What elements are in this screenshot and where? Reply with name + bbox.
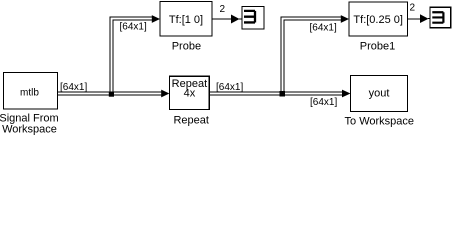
svg-text:4x: 4x bbox=[184, 88, 196, 100]
block Probe (Tf:[1 0]) bbox=[160, 2, 212, 37]
node junction on wire A bbox=[109, 92, 114, 97]
block Repeat bbox=[169, 76, 209, 109]
svg-text:Probe1: Probe1 bbox=[360, 41, 395, 53]
svg-text:[64x1]: [64x1] bbox=[310, 23, 337, 34]
svg-text:Probe: Probe bbox=[172, 41, 201, 53]
block Terminator2 bbox=[430, 7, 451, 28]
svg-text:[64x1]: [64x1] bbox=[310, 97, 337, 108]
wire Repeat to yout (frame double line) bbox=[209, 90, 350, 98]
wire mtlb to Repeat (frame double line) bbox=[58, 90, 170, 98]
block yout (To Workspace) bbox=[351, 76, 408, 112]
svg-text:mtlb: mtlb bbox=[20, 88, 39, 99]
svg-text:[64x1]: [64x1] bbox=[216, 82, 243, 93]
svg-text:Tf:[1 0]: Tf:[1 0] bbox=[169, 14, 203, 26]
wire Probe to Terminator1 bbox=[212, 15, 242, 24]
label Signal From Workspace bbox=[0, 112, 59, 135]
block Terminator1 bbox=[242, 7, 264, 30]
wire branch up to Probe bbox=[110, 15, 160, 93]
svg-text:2: 2 bbox=[220, 4, 226, 15]
svg-text:Tf:[0.25 0]: Tf:[0.25 0] bbox=[353, 14, 403, 26]
svg-text:yout: yout bbox=[369, 88, 390, 100]
svg-text:Repeat: Repeat bbox=[173, 115, 208, 127]
svg-text:Workspace: Workspace bbox=[2, 123, 57, 135]
node junction on wire B bbox=[280, 91, 286, 97]
wire branch up to Probe1 bbox=[281, 15, 349, 93]
wire Probe1 to Terminator2 bbox=[408, 14, 431, 23]
block Probe1 (Tf:[0.25 0]) bbox=[349, 2, 408, 36]
svg-text:[64x1]: [64x1] bbox=[60, 82, 87, 93]
svg-text:To Workspace: To Workspace bbox=[345, 116, 415, 128]
svg-text:[64x1]: [64x1] bbox=[120, 21, 147, 32]
svg-text:2: 2 bbox=[410, 3, 416, 14]
block mtlb (Signal From Workspace) bbox=[4, 73, 58, 110]
